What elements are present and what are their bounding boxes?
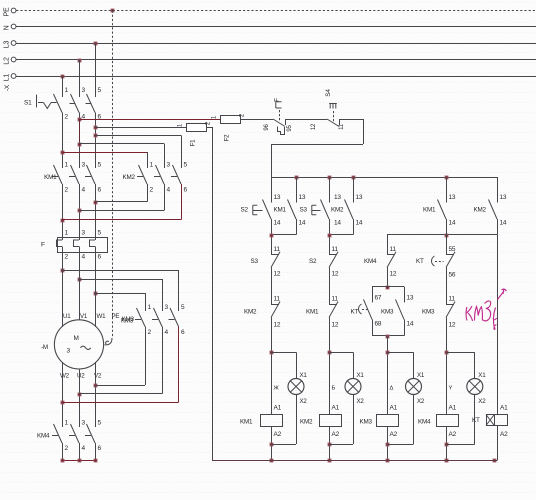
svg-text:4: 4 <box>167 187 171 194</box>
svg-text:12: 12 <box>274 322 281 329</box>
svg-text:12: 12 <box>449 322 456 329</box>
svg-text:13: 13 <box>407 295 414 302</box>
svg-text:-X: -X <box>4 84 11 91</box>
svg-text:2: 2 <box>148 329 152 336</box>
svg-text:L1: L1 <box>4 74 11 82</box>
svg-text:KM1: KM1 <box>306 309 319 316</box>
svg-text:S2: S2 <box>241 207 249 214</box>
svg-text:3: 3 <box>167 162 171 169</box>
svg-text:3: 3 <box>82 162 86 169</box>
svg-text:S1: S1 <box>24 100 32 107</box>
svg-text:W2: W2 <box>60 373 70 380</box>
svg-text:1: 1 <box>65 420 69 427</box>
svg-text:KM4: KM4 <box>37 433 50 440</box>
svg-text:KM3: KM3 <box>422 309 435 316</box>
svg-text:11: 11 <box>274 246 281 253</box>
svg-text:KM1: KM1 <box>240 419 253 426</box>
svg-text:X2: X2 <box>478 398 486 405</box>
svg-text:4: 4 <box>82 254 86 261</box>
svg-text:KM2: KM2 <box>300 419 313 426</box>
svg-text:KM2: KM2 <box>331 207 344 214</box>
svg-text:KM2: KM2 <box>474 207 487 214</box>
svg-text:5: 5 <box>98 162 102 169</box>
svg-text:N: N <box>4 25 11 30</box>
svg-text:11: 11 <box>390 246 397 253</box>
svg-text:X2: X2 <box>357 398 365 405</box>
svg-text:13: 13 <box>334 194 341 201</box>
svg-text:X1: X1 <box>417 372 425 379</box>
svg-text:11: 11 <box>449 296 456 303</box>
svg-text:5: 5 <box>98 230 102 237</box>
svg-text:67: 67 <box>375 295 382 302</box>
svg-text:6: 6 <box>184 187 188 194</box>
svg-text:12: 12 <box>311 123 317 130</box>
svg-text:KM2: KM2 <box>123 174 136 181</box>
svg-text:12: 12 <box>390 271 397 278</box>
svg-text:-M: -M <box>41 344 48 351</box>
svg-text:5: 5 <box>98 87 102 94</box>
svg-text:3: 3 <box>82 87 86 94</box>
svg-text:2: 2 <box>65 254 69 261</box>
svg-text:KT: KT <box>472 417 480 424</box>
svg-text:A2: A2 <box>274 431 282 438</box>
svg-text:M: M <box>74 335 79 342</box>
svg-text:6: 6 <box>181 329 185 336</box>
svg-text:68: 68 <box>375 321 382 328</box>
svg-text:1: 1 <box>150 162 154 169</box>
svg-text:A1: A1 <box>274 405 282 412</box>
svg-text:X1: X1 <box>478 372 486 379</box>
svg-text:A1: A1 <box>449 405 457 412</box>
svg-text:S2: S2 <box>309 258 317 265</box>
svg-text:11: 11 <box>274 296 281 303</box>
svg-text:A2: A2 <box>500 431 508 438</box>
svg-text:1: 1 <box>65 230 69 237</box>
svg-text:A2: A2 <box>449 431 457 438</box>
svg-text:F2: F2 <box>224 134 231 142</box>
svg-text:3: 3 <box>165 304 169 311</box>
svg-text:3: 3 <box>82 420 86 427</box>
svg-text:13: 13 <box>500 194 507 201</box>
svg-text:X2: X2 <box>417 398 425 405</box>
svg-text:14: 14 <box>356 220 363 227</box>
svg-text:KM1: KM1 <box>274 207 287 214</box>
svg-text:2: 2 <box>65 114 69 121</box>
svg-text:14: 14 <box>449 220 456 227</box>
svg-text:6: 6 <box>98 445 102 452</box>
svg-text:F: F <box>274 98 281 102</box>
svg-text:12: 12 <box>332 271 339 278</box>
svg-text:PE: PE <box>4 7 11 16</box>
svg-text:4: 4 <box>82 187 86 194</box>
svg-text:13: 13 <box>299 194 306 201</box>
svg-text:6: 6 <box>98 254 102 261</box>
svg-text:1: 1 <box>148 304 152 311</box>
svg-text:95: 95 <box>287 125 293 132</box>
svg-text:2: 2 <box>65 445 69 452</box>
svg-text:6: 6 <box>98 187 102 194</box>
svg-text:L2: L2 <box>4 57 11 65</box>
svg-text:KM3: KM3 <box>122 316 135 323</box>
svg-text:5: 5 <box>184 162 188 169</box>
svg-text:14: 14 <box>274 220 281 227</box>
svg-text:A1: A1 <box>500 405 508 412</box>
svg-text:14: 14 <box>407 321 414 328</box>
svg-text:A1: A1 <box>332 405 340 412</box>
svg-text:96: 96 <box>264 124 270 131</box>
svg-text:KM4: KM4 <box>364 258 377 265</box>
svg-text:55: 55 <box>449 246 456 253</box>
svg-text:X2: X2 <box>300 398 308 405</box>
svg-text:14: 14 <box>299 220 306 227</box>
svg-text:KT: KT <box>416 258 424 265</box>
svg-text:U2: U2 <box>77 373 85 380</box>
svg-text:KM4: KM4 <box>418 419 431 426</box>
svg-text:L3: L3 <box>4 41 11 49</box>
svg-text:56: 56 <box>449 272 456 279</box>
svg-text:3: 3 <box>67 348 71 355</box>
svg-text:PE: PE <box>112 313 120 320</box>
svg-text:13: 13 <box>274 194 281 201</box>
svg-text:12: 12 <box>332 322 339 329</box>
svg-text:S3: S3 <box>300 207 308 214</box>
svg-text:13: 13 <box>356 194 363 201</box>
svg-text:4: 4 <box>165 329 169 336</box>
svg-text:KM3: KM3 <box>360 419 373 426</box>
svg-text:5: 5 <box>98 420 102 427</box>
svg-text:A2: A2 <box>390 431 398 438</box>
svg-text:13: 13 <box>449 194 456 201</box>
svg-text:KT: KT <box>351 309 359 316</box>
svg-text:A2: A2 <box>332 431 340 438</box>
svg-text:2: 2 <box>150 187 154 194</box>
svg-text:11: 11 <box>332 246 339 253</box>
svg-text:Y: Y <box>449 386 453 392</box>
svg-text:S3: S3 <box>251 258 259 265</box>
svg-text:KM1: KM1 <box>44 174 57 181</box>
svg-text:F: F <box>41 242 45 249</box>
svg-text:Δ: Δ <box>390 386 394 392</box>
svg-text:V1: V1 <box>80 313 88 320</box>
svg-text:14: 14 <box>334 220 341 227</box>
svg-text:1: 1 <box>65 162 69 169</box>
svg-text:1: 1 <box>65 87 69 94</box>
svg-text:Б: Б <box>332 386 336 392</box>
svg-text:A1: A1 <box>390 405 398 412</box>
svg-text:W1: W1 <box>97 313 107 320</box>
svg-text:3: 3 <box>82 230 86 237</box>
svg-text:Ж: Ж <box>274 386 280 392</box>
svg-text:U1: U1 <box>63 313 71 320</box>
svg-text:5: 5 <box>181 304 185 311</box>
svg-text:X1: X1 <box>357 372 365 379</box>
svg-text:2: 2 <box>65 187 69 194</box>
svg-text:4: 4 <box>82 445 86 452</box>
svg-text:S4: S4 <box>325 89 332 97</box>
svg-text:12: 12 <box>274 271 281 278</box>
svg-text:F1: F1 <box>190 139 197 147</box>
svg-text:14: 14 <box>500 220 507 227</box>
svg-text:11: 11 <box>332 296 339 303</box>
svg-text:KM2: KM2 <box>244 309 257 316</box>
svg-text:11: 11 <box>339 123 345 130</box>
svg-text:KM3: KM3 <box>381 309 394 316</box>
svg-text:X1: X1 <box>300 372 308 379</box>
svg-text:KM1: KM1 <box>423 207 436 214</box>
